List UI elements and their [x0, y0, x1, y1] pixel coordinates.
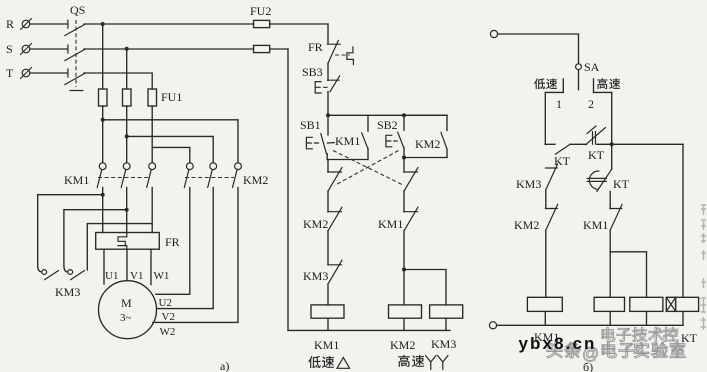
button SB1 start low [300, 115, 334, 159]
svg-text:FU2: FU2 [250, 4, 271, 18]
svg-text:QS: QS [70, 3, 85, 17]
wire SB2 bottom rail [404, 157, 447, 159]
node R phase terminal [6, 17, 32, 31]
button SB3 stop [302, 65, 340, 93]
svg-text:3~: 3~ [120, 312, 132, 324]
wire col2 to KM2 pole2 [127, 136, 214, 162]
contactor KM1 main contacts [64, 163, 156, 188]
node contact 1 low [534, 78, 563, 144]
wire contact2 down [611, 92, 613, 169]
wire T to QS [30, 72, 68, 74]
wire col3 to KM2 pole1 [152, 147, 190, 162]
wire dashed interlock cross [333, 151, 402, 185]
wire to KM3 coil b [610, 252, 646, 297]
wire col1 below FU1 [102, 106, 104, 163]
svg-text:U2: U2 [159, 297, 172, 309]
node S phase terminal [6, 42, 32, 56]
wire SB1 bottom rail [327, 159, 368, 161]
wire KM1 pole3 down [151, 188, 153, 233]
wire coil bottoms [327, 318, 329, 330]
svg-text:KM3: KM3 [55, 285, 80, 299]
svg-text:S: S [6, 42, 13, 56]
svg-text:SB3: SB3 [302, 65, 323, 79]
wire FR to motor V1 [126, 249, 128, 281]
wire FR to motor U1 [103, 249, 105, 284]
wire KM1 pole1 down [102, 188, 104, 233]
svg-text:FR: FR [165, 235, 180, 249]
wire R drop to FR contact [327, 24, 329, 43]
contact KM1 aux seal-in [335, 115, 368, 159]
contact KM3 interlock NC b [516, 164, 558, 209]
wire col2 below FU1 [126, 106, 128, 163]
wire col1 to KM2 pole3 [103, 120, 238, 163]
svg-text:а): а) [220, 359, 229, 372]
svg-text:V1: V1 [130, 270, 143, 282]
contact KM1 interlock NC b [583, 204, 622, 297]
svg-text:SB2: SB2 [377, 118, 398, 132]
label low-speed delta [308, 356, 349, 368]
svg-text:KT: KT [588, 148, 605, 162]
svg-text:KM3: KM3 [431, 337, 456, 351]
svg-text:KM2: KM2 [415, 137, 440, 151]
node terminal top b [490, 30, 497, 37]
contact FR normally-closed [308, 40, 353, 65]
node junction S column [125, 47, 129, 51]
coil KT b [666, 297, 698, 311]
node junction col1 to KM2 pole3 [101, 118, 105, 122]
contact KM1 interlock NC [378, 207, 418, 269]
svg-text:2: 2 [588, 97, 594, 111]
wire top b [498, 34, 579, 64]
svg-text:SB1: SB1 [300, 118, 321, 132]
svg-text:KM2: KM2 [303, 217, 328, 231]
svg-text:KM1: KM1 [335, 134, 360, 148]
wire KM1 pole2 down [126, 188, 128, 233]
svg-text:KM2: KM2 [514, 218, 539, 232]
wire to KM3 coil [404, 270, 446, 305]
wire S after QS [84, 48, 254, 50]
wire KM3 branch2 [64, 210, 127, 272]
svg-text:W1: W1 [154, 270, 170, 282]
svg-text:KM3: KM3 [516, 177, 541, 191]
contact SB2 linked NC left [328, 160, 342, 212]
wire R down to FU1 [102, 24, 104, 89]
svg-text:SA: SA [584, 60, 600, 74]
wire W2 [153, 188, 238, 323]
relay FR heater [96, 233, 180, 250]
fuse FU2b [254, 45, 270, 52]
contact KT instantaneous NO [554, 144, 571, 168]
svg-text:ybx8.cn: ybx8.cn [519, 334, 597, 353]
svg-text:1: 1 [556, 97, 562, 111]
node T phase terminal [6, 66, 32, 80]
wire SB3 to rail [327, 92, 329, 116]
svg-text:T: T [6, 66, 14, 80]
svg-text:V2: V2 [162, 311, 175, 323]
wire FR to SB3 [327, 63, 329, 80]
wire top rail [328, 114, 447, 116]
button SB2 start high [377, 115, 404, 157]
node junction R column [101, 22, 105, 26]
watermark right edge marks [701, 205, 707, 330]
contact SB1 linked NC right [404, 158, 418, 212]
node contact 2 high [588, 78, 620, 111]
svg-text:R: R [6, 17, 14, 31]
node junction top rail left [326, 113, 330, 117]
switch SA selector [576, 60, 600, 90]
wire bottom rail [288, 329, 450, 331]
contact KT delayed NO [587, 169, 630, 209]
wire KM3 branch3 [87, 224, 152, 270]
fuse FU1 group [99, 89, 183, 106]
contact KM2 aux seal-in [404, 115, 447, 157]
contact KM2 interlock NC b [514, 204, 558, 297]
coil KM3 b [630, 297, 663, 311]
wire FU2a to control [270, 23, 328, 25]
wire S down to FU1 [126, 49, 128, 89]
watermark gray characters [602, 327, 678, 341]
wire U2 [156, 188, 190, 295]
svg-text:KM2: KM2 [243, 173, 268, 187]
motor M [99, 281, 157, 339]
wire rail segment mid [570, 143, 586, 145]
coil KM1 [311, 305, 344, 318]
wire coil bottoms b [544, 311, 546, 325]
coil KM2 b [594, 297, 624, 311]
wire S drop left rail [287, 49, 289, 330]
svg-text:KM1: KM1 [314, 338, 339, 352]
svg-text:KM1: KM1 [583, 218, 608, 232]
node junction KM2-KM3 coils [402, 268, 406, 272]
coil KM2 [389, 305, 422, 318]
svg-text:FU1: FU1 [161, 90, 182, 104]
wire R to QS [30, 23, 68, 25]
svg-text:U1: U1 [105, 270, 118, 282]
node junction rail contact2 [610, 142, 614, 146]
wire S to QS [30, 48, 68, 50]
wire V2 [157, 188, 213, 309]
contact KT delayed NC [586, 126, 606, 162]
node junction top rail SB2 [402, 113, 406, 117]
wire rail segment right [597, 143, 683, 145]
svg-text:KM1: KM1 [64, 173, 89, 187]
fuse FU2a [254, 20, 270, 27]
node terminal bottom b [489, 322, 496, 329]
node junction pole2 KM3 branch [125, 208, 129, 212]
contact KM3 interlock NC [303, 260, 342, 305]
svg-text:M: M [121, 296, 132, 310]
wire KM3 branch1 [38, 195, 103, 272]
contactor KM2 main contacts [184, 163, 268, 188]
coil KM3 [430, 305, 463, 318]
wire right drop to KT coil [682, 144, 684, 297]
wire FU2b to control [270, 48, 288, 50]
node junction pole1 KM3 branch [101, 193, 105, 197]
wire FR to motor W1 [150, 249, 152, 284]
svg-text:W2: W2 [160, 326, 176, 338]
svg-text:KM1: KM1 [378, 217, 403, 231]
svg-text:KM2: KM2 [390, 338, 415, 352]
node junction col2 to KM2 pole2 [125, 134, 129, 138]
contactor KM3 star contacts [42, 270, 85, 299]
coil KM1 b [527, 297, 562, 311]
svg-text:KM3: KM3 [303, 269, 328, 283]
label high-speed YY [398, 355, 448, 370]
node junction SB2 bottom [402, 156, 406, 160]
wire col3 below FU1 [151, 106, 153, 163]
contact KM2 interlock NC [303, 207, 342, 265]
wire R after QS [84, 23, 254, 25]
svg-text:FR: FR [308, 40, 323, 54]
svg-text:KT: KT [681, 331, 698, 345]
wire T after QS [84, 73, 152, 89]
svg-text:KT: KT [613, 177, 630, 191]
wire rail segment left [545, 143, 555, 145]
wire to KM2 coil [403, 270, 405, 305]
wire bottom rail b [497, 324, 683, 326]
switch QS [65, 3, 86, 91]
